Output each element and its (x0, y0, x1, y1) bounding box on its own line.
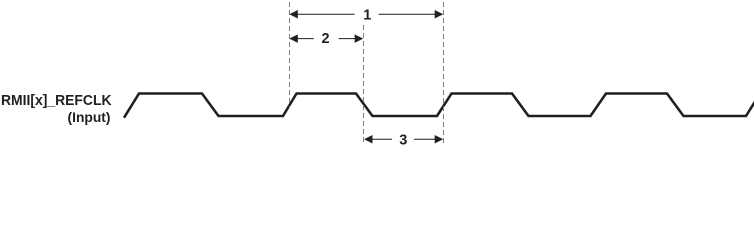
waveform RMII[x]_REFCLK clock (124, 94, 754, 118)
dimension arrow 2 (high time) (289, 34, 363, 43)
dashed reference line at first rising edge (289, 2, 291, 108)
dashed reference line at falling edge (363, 25, 365, 144)
dimension arrow 1 (clock period) (289, 10, 443, 19)
dimension arrow 3 (low time) (364, 135, 443, 144)
svg-text:3: 3 (399, 132, 407, 148)
svg-text:RMII[x]_REFCLK: RMII[x]_REFCLK (1, 93, 112, 109)
dashed reference line at second rising edge (443, 2, 445, 144)
svg-text:2: 2 (322, 31, 330, 47)
svg-text:(Input): (Input) (68, 110, 111, 125)
svg-text:1: 1 (363, 8, 371, 24)
